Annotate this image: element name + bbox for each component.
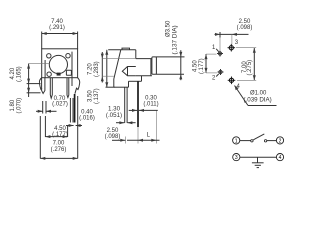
corner post square BR [66,70,71,75]
dim 0.30 line [129,109,158,112]
pad 3 [228,44,236,52]
bushing [136,58,152,60]
switch contact right [264,140,266,142]
svg-text:7.20: 7.20 [88,63,94,75]
extension from center pin [137,127,139,144]
right leg flat (thick) [74,94,76,123]
index tab at bottom of opening [57,73,61,76]
svg-text:3.50: 3.50 [88,90,94,102]
svg-text:(.011): (.011) [143,102,158,108]
dim 4.20 (.165) rotated [10,66,22,82]
side view center pin (thick) [137,81,139,127]
extension from left pin [125,137,127,144]
dim 3.50 line [101,52,136,83]
dim 7.40 line [42,32,78,49]
svg-text:(.137): (.137) [94,88,100,104]
ground bar 3 [257,167,259,169]
jack opening big circle [49,55,67,73]
dim Ø1.00 text [244,91,272,104]
dim 0.70 lines [36,101,57,114]
svg-text:0.40: 0.40 [81,109,93,115]
dim 7.20 (.283) rotated [88,61,101,77]
svg-text:(.098): (.098) [105,134,121,140]
svg-text:(.051): (.051) [106,112,122,119]
dim 2.50 footprint lines [215,32,249,50]
side view pin pair (left pin) [125,87,127,123]
side view body outline [108,48,156,87]
dim 0.40 line [66,124,82,127]
wire from 1 [240,140,251,142]
extension from bushing tip [155,110,157,143]
right leg outline [70,98,73,123]
svg-text:(.165): (.165) [16,66,22,82]
dim 0.30 (.011) text [143,96,158,108]
dim 0.40 (.016) text [79,109,95,121]
dim 4.20 line [27,64,41,84]
slanted front edge [114,50,121,79]
svg-text:1: 1 [235,138,238,144]
body lower right step [141,76,143,82]
dim 7.40 (.291) text [49,19,65,31]
svg-text:4.20: 4.20 [10,67,16,79]
dim 7.00 (.275) footprint rotated [242,60,253,76]
wire 3 to 4 [240,156,277,158]
dim 4.50 (.177) text bottom-left [52,126,68,138]
dim Ø3.50 (.137 DIA) rotated [166,20,179,55]
inner contact wedge [122,67,136,76]
svg-text:(.137 DIA): (.137 DIA) [172,25,179,54]
right outer wing [75,78,80,94]
svg-text:(.016): (.016) [79,116,95,122]
dim 1.30 (.051) text [106,106,122,120]
terminal 4 [276,154,283,162]
svg-text:(.283): (.283) [94,61,100,77]
right inner pin pair [67,78,69,98]
dim 3.50 (.137) rotated [88,88,101,104]
dim 2.50 line + L line [112,139,160,142]
svg-text:3: 3 [235,155,238,161]
dim 1.30 line [116,121,136,124]
svg-text:(.177): (.177) [199,58,205,74]
top view body rectangle [42,49,78,78]
dim 1.80 line [27,84,41,97]
svg-text:4.50: 4.50 [193,60,199,72]
left leg [42,78,45,94]
ground bar 1 [252,162,264,164]
corner post circle TR [66,54,70,58]
dim 7.00 line [40,96,77,160]
dim Ø1.00 (.039 DIA) leader [235,86,277,106]
dim 4.50 footprint lines [205,54,218,73]
ground bar 2 [255,164,261,166]
svg-text:2: 2 [279,138,282,144]
pad 4 [228,77,236,85]
corner post circle TL [47,54,51,58]
switch contact left [251,140,253,142]
dim 4.50 line [45,116,67,138]
svg-text:(.291): (.291) [49,25,65,31]
centerline into opening [29,63,50,65]
top bump [122,48,130,50]
dim 1.80 (.070) rotated [10,98,22,114]
pad 2 [218,69,224,75]
dim Ø3.50 lines [156,50,185,80]
svg-text:(.098): (.098) [237,25,253,31]
dim 2.50 (.098) text [105,128,121,140]
svg-text:(.027): (.027) [52,102,68,108]
svg-text:1.80: 1.80 [10,99,16,111]
dim 4.50 (.177) footprint rotated [193,58,205,74]
terminal 2 [276,137,283,145]
dim 7.20 line [105,50,114,87]
svg-text:7.00: 7.00 [53,141,65,147]
dim 0.70 (.027) text [52,96,68,108]
svg-text:0.30: 0.30 [145,96,157,102]
svg-text:(.275): (.275) [247,60,253,76]
dim 7.00 footprint lines [236,48,256,81]
svg-text:(.276): (.276) [51,147,67,153]
terminal 1 [233,137,240,145]
svg-text:(.039 DIA): (.039 DIA) [244,97,272,104]
left outer wing [39,78,42,90]
corner post circle BL [47,72,51,76]
middle leg [50,78,52,99]
switch blade [253,134,264,140]
ground stub [257,157,259,162]
svg-text:(.070): (.070) [16,98,22,114]
dim 7.00 (.276) text [51,141,67,153]
corner post circle BR [71,52,73,86]
dim 2.50 (.098) footprint text [237,19,253,31]
wire to 2 [267,140,277,142]
svg-text:4: 4 [279,155,282,161]
pad 1 [217,51,223,57]
terminal 3 [233,154,240,162]
